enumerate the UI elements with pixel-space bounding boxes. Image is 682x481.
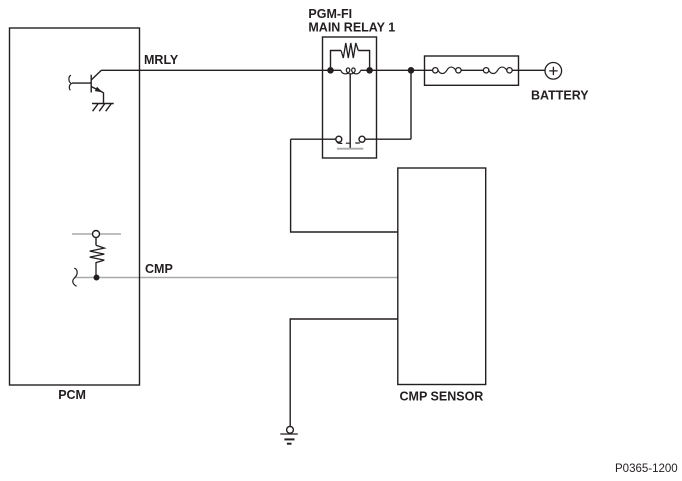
svg-text:CMP: CMP xyxy=(145,262,173,276)
svg-text:PGM-FI: PGM-FI xyxy=(308,7,352,21)
svg-text:CMP SENSOR: CMP SENSOR xyxy=(400,389,484,403)
svg-text:BATTERY: BATTERY xyxy=(531,88,589,102)
svg-text:MAIN RELAY 1: MAIN RELAY 1 xyxy=(308,21,395,35)
svg-text:P0365-1200: P0365-1200 xyxy=(615,463,678,475)
svg-text:PCM: PCM xyxy=(58,388,86,402)
svg-text:MRLY: MRLY xyxy=(144,53,179,67)
